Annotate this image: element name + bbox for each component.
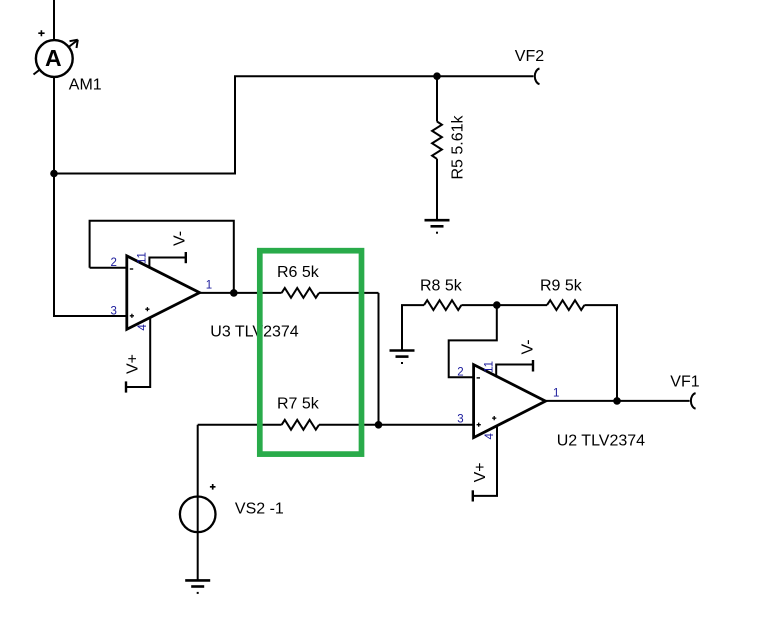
wire VS2 to R7 bbox=[197, 425, 199, 497]
pin 11 V- stub (U3) bbox=[149, 231, 188, 268]
wire top feed into AM1 bbox=[53, 0, 55, 41]
ground (R8) bbox=[390, 351, 415, 365]
svg-text:11: 11 bbox=[137, 252, 149, 264]
junction R7 node bbox=[375, 421, 383, 429]
ammeter AM1 bbox=[34, 30, 102, 93]
wire node to R9 bbox=[497, 304, 547, 306]
wire feedback loop U3 bbox=[90, 221, 234, 293]
wire node to U2 pin3 bbox=[379, 424, 474, 426]
wire R7 right to node bbox=[319, 424, 379, 426]
svg-text:V+: V+ bbox=[125, 354, 142, 374]
wire R7 left bbox=[198, 424, 282, 426]
resistor R6 5k bbox=[277, 264, 320, 298]
svg-text:11: 11 bbox=[483, 361, 495, 373]
svg-text:2: 2 bbox=[457, 367, 463, 379]
pin 11 V- stub (U2) bbox=[496, 339, 536, 377]
wire riser R6-R7 node bbox=[378, 293, 380, 425]
wire top rail to VF2 bbox=[234, 75, 534, 77]
op-amp U3 bbox=[111, 252, 299, 340]
wire R9 to output riser bbox=[584, 305, 617, 401]
svg-text:A: A bbox=[45, 45, 62, 71]
wire pin2 (U3) bbox=[90, 267, 127, 269]
junction U2 output bbox=[613, 397, 621, 405]
terminal VF1 bbox=[670, 374, 699, 409]
wire R8 to node bbox=[461, 304, 496, 306]
wire AM1 to node A bbox=[53, 77, 55, 318]
svg-text:V-: V- bbox=[520, 339, 537, 354]
svg-text:1: 1 bbox=[553, 387, 559, 399]
resistor R8 5k bbox=[420, 278, 463, 311]
resistor R5 5.61k bbox=[432, 76, 466, 220]
junction R8/R9 bbox=[493, 301, 501, 309]
svg-text:U2 TLV2374: U2 TLV2374 bbox=[557, 433, 645, 450]
wire pin3 (U3) bbox=[54, 315, 127, 317]
resistor R7 5k bbox=[277, 396, 320, 430]
svg-text:R5 5.61k: R5 5.61k bbox=[450, 114, 467, 179]
voltage source VS2 -1 bbox=[180, 484, 284, 532]
terminal VF2 bbox=[515, 48, 544, 84]
junction node A bbox=[50, 170, 58, 178]
resistor R9 5k bbox=[540, 278, 584, 311]
wire R6 to riser bbox=[319, 292, 379, 294]
pin 4 V+ stub (U3) bbox=[125, 318, 151, 393]
svg-text:R6 5k: R6 5k bbox=[277, 264, 320, 281]
ground (VS2) bbox=[185, 580, 210, 594]
svg-text:3: 3 bbox=[457, 414, 463, 426]
svg-text:1: 1 bbox=[206, 280, 212, 292]
wire U3 output bbox=[200, 292, 282, 294]
wire riser to top rail bbox=[234, 76, 236, 174]
ground (R5) bbox=[425, 220, 450, 234]
pin 4 V+ stub (U2) bbox=[472, 427, 497, 502]
svg-text:U3 TLV2374: U3 TLV2374 bbox=[210, 324, 298, 341]
svg-text:VS2 -1: VS2 -1 bbox=[235, 500, 284, 517]
wire node A to riser bbox=[53, 173, 236, 175]
svg-text:VF1: VF1 bbox=[670, 374, 699, 391]
highlight box (green) around R6/R7 bbox=[260, 251, 362, 454]
junction U3 output bbox=[230, 289, 238, 297]
op-amp U2 bbox=[457, 361, 645, 450]
svg-text:R7 5k: R7 5k bbox=[277, 396, 320, 413]
wire U2 output bbox=[546, 400, 690, 402]
svg-text:4: 4 bbox=[137, 324, 149, 331]
svg-text:R9 5k: R9 5k bbox=[540, 278, 583, 295]
svg-text:AM1: AM1 bbox=[69, 77, 102, 94]
junction node VF2/R5 bbox=[433, 72, 441, 80]
svg-text:R8 5k: R8 5k bbox=[420, 278, 463, 295]
svg-text:VF2: VF2 bbox=[515, 48, 544, 65]
svg-text:V-: V- bbox=[172, 231, 189, 246]
svg-text:4: 4 bbox=[484, 433, 496, 440]
wire VS2 to ground bbox=[197, 532, 199, 580]
wire ground to R8 bbox=[402, 305, 424, 350]
wire U2 pin2 path bbox=[449, 305, 497, 377]
svg-text:V+: V+ bbox=[472, 462, 489, 482]
